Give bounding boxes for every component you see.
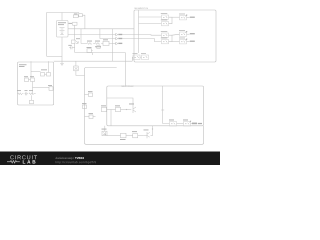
svg-text:http://circuitlab.com/6pd7r5: http://circuitlab.com/6pd7r5 [55,160,96,164]
svg-text:SEGMENTOS: SEGMENTOS [134,8,148,10]
svg-text:MULTIPLEX: MULTIPLEX [122,86,135,88]
svg-text:LAB: LAB [22,160,37,165]
